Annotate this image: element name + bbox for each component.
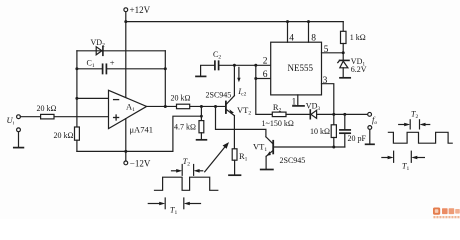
diode VD2 xyxy=(96,46,103,55)
wire VD3 to fo xyxy=(317,113,368,115)
wire pin5 row xyxy=(322,52,344,54)
diode VD1 zener 6.2V xyxy=(338,60,349,77)
node pin8 rail junction xyxy=(307,20,310,23)
svg-text:8: 8 xyxy=(311,34,316,44)
svg-text:Ic2: Ic2 xyxy=(237,86,246,98)
svg-text:10 kΩ: 10 kΩ xyxy=(310,127,330,136)
svg-text:1~150 kΩ: 1~150 kΩ xyxy=(262,119,294,128)
svg-text:NE555: NE555 xyxy=(288,63,314,73)
svg-text:1 kΩ: 1 kΩ xyxy=(350,33,366,42)
node VT2 base branch junction xyxy=(214,105,217,108)
svg-text:5: 5 xyxy=(324,45,329,55)
wire +12V down to op-amp xyxy=(125,22,127,98)
svg-text:VD2: VD2 xyxy=(91,38,106,49)
wire VT2 base branch down and right xyxy=(216,106,266,136)
node pin6 junction xyxy=(254,77,257,80)
svg-text:4: 4 xyxy=(289,33,294,43)
wire left vertical (VD2/C1 to inverting input and 20k) xyxy=(76,51,78,127)
svg-text:6.2V: 6.2V xyxy=(351,65,367,74)
wire op-amp output row xyxy=(147,105,226,107)
node VT2 collector junction xyxy=(233,64,236,67)
terminal Ui input xyxy=(17,115,21,119)
wire C1 row right xyxy=(107,68,165,70)
node pin5/zener junction xyxy=(342,51,345,54)
svg-text:20 kΩ: 20 kΩ xyxy=(54,131,74,140)
node pin2/pin6 junction xyxy=(254,64,257,67)
wire 4.7k top xyxy=(200,106,202,120)
wire pin8 xyxy=(308,22,310,43)
capacitor 20pF xyxy=(340,114,350,147)
wire pin4 xyxy=(287,22,289,43)
wire R1 bottom xyxy=(234,160,236,175)
wire inverting input row xyxy=(77,97,109,99)
IC U2 NE555 box xyxy=(271,42,322,95)
svg-text:VD3: VD3 xyxy=(306,101,321,112)
wire branch to bottom row xyxy=(173,116,202,151)
waveform left T2 measure arrows xyxy=(172,165,203,176)
svg-text:4.7 kΩ: 4.7 kΩ xyxy=(174,122,196,131)
wire R2 to VD3 xyxy=(286,113,310,115)
wire op-amp negative supply xyxy=(125,119,127,161)
wire right vertical (feedback to output) xyxy=(164,51,166,107)
watermark logo xyxy=(433,208,460,219)
wire 4.7k bottom xyxy=(200,133,202,140)
resistor 20k feedback xyxy=(177,104,190,109)
waveform left T3 square wave xyxy=(155,177,218,190)
node 20pF junction xyxy=(343,113,346,116)
diode VD3 xyxy=(310,110,316,119)
resistor 20k vertical xyxy=(75,127,80,140)
svg-text:Ui: Ui xyxy=(7,115,15,127)
node 4.7k branch junction xyxy=(200,115,203,118)
op-amp U1 uA741 xyxy=(109,90,147,128)
wire pin1 xyxy=(297,95,299,106)
transistor Q2 VT2 2SC945 xyxy=(226,96,235,116)
svg-text:3: 3 xyxy=(323,76,328,86)
wire VT1 base row xyxy=(274,146,345,148)
transistor Q1 VT1 2SC945 xyxy=(266,137,273,157)
wire 20k vertical to bottom row xyxy=(76,140,78,151)
svg-text:T1: T1 xyxy=(402,161,409,172)
ground R1 xyxy=(229,174,241,176)
terminal fo ground xyxy=(368,126,372,144)
node inverting input junction xyxy=(75,97,78,100)
svg-text:+12V: +12V xyxy=(130,5,151,15)
node C1 left junction xyxy=(75,67,78,70)
wire VT2 collector xyxy=(233,65,235,95)
waveform right output square wave xyxy=(388,132,452,143)
node pin3/10k junction xyxy=(332,113,335,116)
resistor 20k input xyxy=(41,114,54,119)
ground input xyxy=(14,147,24,149)
terminal input ground xyxy=(17,128,21,147)
wire vertical to R2 xyxy=(256,65,272,114)
svg-text:R1: R1 xyxy=(239,151,248,163)
ground 4.7k xyxy=(197,139,207,141)
ground VD1 xyxy=(340,77,350,79)
waveform right T2 measure arrows xyxy=(399,120,430,129)
wire noninverting input row xyxy=(20,116,109,118)
svg-text:20 pF: 20 pF xyxy=(348,134,367,143)
resistor 10k xyxy=(331,114,336,147)
ground C2 xyxy=(196,75,206,77)
node pin4 rail junction xyxy=(286,20,289,23)
svg-text:20 kΩ: 20 kΩ xyxy=(171,94,191,103)
resistor 4.7k xyxy=(199,121,204,133)
svg-text:T1: T1 xyxy=(170,205,177,216)
Ic2 current arrow xyxy=(237,67,240,82)
svg-text:2SC945: 2SC945 xyxy=(280,156,306,165)
wire VD2 feedback row xyxy=(77,50,165,52)
svg-text:2: 2 xyxy=(263,57,268,67)
svg-text:T2: T2 xyxy=(411,109,418,120)
wire C2 right to NE555 pin2 xyxy=(219,64,271,66)
svg-text:20 kΩ: 20 kΩ xyxy=(37,104,57,113)
svg-text:2SC945: 2SC945 xyxy=(206,91,232,100)
ground fo xyxy=(366,143,374,145)
svg-text:VT2: VT2 xyxy=(237,105,251,117)
node C1 right junction xyxy=(164,67,167,70)
resistor R1 xyxy=(232,149,237,160)
terminal fo output xyxy=(368,112,372,116)
capacitor C1 xyxy=(103,64,107,73)
svg-text:fo: fo xyxy=(372,114,377,126)
wire C1 row left xyxy=(77,68,102,70)
wire top +12V rail xyxy=(126,21,343,23)
wire VT1 emitter to ground xyxy=(265,156,267,169)
svg-text:VT1: VT1 xyxy=(253,141,267,153)
svg-text:6: 6 xyxy=(263,70,268,80)
svg-text:T2: T2 xyxy=(183,157,190,168)
svg-text:C1: C1 xyxy=(87,58,95,69)
resistor 1k xyxy=(341,22,347,60)
node after 20k junction xyxy=(200,105,203,108)
svg-text:R2: R2 xyxy=(273,102,282,114)
wire pin3 row xyxy=(322,84,334,115)
svg-text:μA741: μA741 xyxy=(130,125,153,135)
waveform left T1 measure arrows xyxy=(148,198,200,209)
svg-text:C2: C2 xyxy=(213,50,221,61)
ground pin1 xyxy=(293,105,304,107)
wire bottom row to -12V xyxy=(77,150,173,152)
node rail/+12V junction xyxy=(124,20,127,23)
node -12V junction on bottom row xyxy=(124,150,127,153)
resistor R2 xyxy=(272,112,286,117)
waveform right T1 measure arrows xyxy=(382,151,425,162)
svg-text:−12V: −12V xyxy=(130,159,151,169)
wire pin6 row xyxy=(256,78,271,80)
wire VT2 emitter to R1 xyxy=(233,116,235,149)
svg-text:+: + xyxy=(110,58,115,68)
wire C2 left to ground xyxy=(201,65,215,76)
capacitor C2 xyxy=(215,61,219,69)
node output/feedback junction xyxy=(164,105,167,108)
annotation arrow to VT2 xyxy=(205,142,229,172)
terminal -12V xyxy=(124,161,128,165)
node 10k/base junction xyxy=(332,146,335,149)
+12V terminal xyxy=(124,8,128,22)
ground VT1 xyxy=(261,169,273,171)
